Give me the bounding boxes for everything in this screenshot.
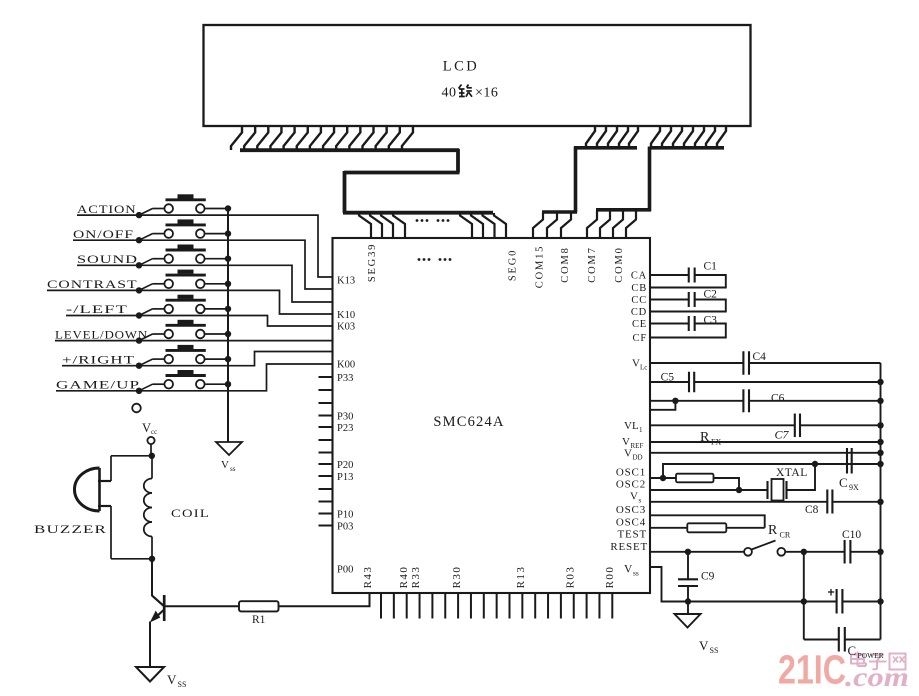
- svg-text:P20: P20: [337, 460, 353, 471]
- LCD segment pin bundle (left group) into bus: [231, 126, 413, 150]
- svg-text:R40: R40: [398, 566, 410, 589]
- Vcc terminal: [142, 421, 157, 456]
- svg-text:COM8: COM8: [560, 246, 571, 282]
- switch RESET: [744, 541, 785, 556]
- unconnected left pin stubs: [319, 377, 333, 526]
- pushbutton CONTRAST: [136, 270, 231, 294]
- svg-text:C8: C8: [805, 504, 819, 516]
- wire buzzer left side: [110, 456, 112, 559]
- svg-text:R43: R43: [362, 566, 374, 589]
- node RESET junction left: [685, 549, 691, 555]
- pushbutton LEVEL/DOWN: [136, 320, 231, 344]
- svg-text:RESET: RESET: [610, 541, 648, 553]
- COM bus A vertical: [574, 147, 578, 213]
- svg-text:R00: R00: [604, 566, 616, 589]
- ground Vss under transistor: [136, 667, 186, 689]
- spare contact circle: [132, 404, 141, 413]
- capacitor C1 between CA CB rows: [651, 261, 726, 288]
- capacitor CPOWER: [804, 627, 884, 660]
- wire RESET row: [651, 551, 744, 553]
- node OSC1 junction: [660, 475, 666, 481]
- wire OSC4 row: [651, 527, 687, 529]
- svg-text:COM15: COM15: [535, 245, 546, 288]
- LCD COM pin bundle (middle group) into bus: [586, 126, 638, 147]
- COM15/COM8 pin group into chip: [533, 213, 571, 239]
- svg-text:SEG39: SEG39: [367, 243, 378, 282]
- wire coil to transistor collector: [151, 559, 153, 596]
- capacitor C7: [775, 414, 801, 442]
- svg-text:P00: P00: [337, 565, 353, 576]
- wire Vss pin to bottom row: [650, 567, 804, 602]
- svg-text:COM7: COM7: [587, 246, 598, 282]
- COM7/COM0 pin group into chip: [587, 211, 636, 239]
- wire C6 to rail: [749, 400, 881, 402]
- svg-text:K13: K13: [337, 276, 355, 287]
- SEG0 pin group into chip: [460, 213, 506, 238]
- node coil top junction: [149, 453, 155, 459]
- svg-text:R1: R1: [252, 614, 266, 626]
- wire buzzer bottom: [111, 558, 152, 560]
- wire OSC1 row: [651, 477, 676, 479]
- svg-text:K00: K00: [337, 360, 355, 371]
- svg-text:C7: C7: [775, 428, 790, 442]
- svg-text:+/RIGHT: +/RIGHT: [62, 353, 135, 366]
- wire LEVEL/DOWN to key input: [55, 340, 333, 342]
- svg-text:LEVEL/DOWN: LEVEL/DOWN: [55, 328, 148, 341]
- svg-text:C6: C6: [771, 393, 785, 405]
- label RCR: [768, 523, 791, 540]
- svg-text:OSC1: OSC1: [616, 467, 646, 479]
- bottom R pin stubs: [381, 594, 612, 619]
- pin label VL1: [624, 420, 643, 434]
- pushbutton SOUND: [136, 245, 231, 269]
- transistor Q1: [150, 595, 164, 623]
- pin label Vss (bottom right): [624, 564, 639, 578]
- node bottom row right junction: [801, 598, 807, 604]
- svg-text:V: V: [624, 564, 633, 576]
- svg-text:R13: R13: [515, 566, 527, 589]
- wire ACTION to key input: [77, 215, 333, 277]
- wire GAME/UP to key input: [56, 364, 333, 391]
- svg-text:CB: CB: [631, 283, 647, 294]
- buzzer speaker symbol: [75, 468, 112, 511]
- svg-text:C10: C10: [842, 529, 861, 541]
- capacitor C9: [678, 552, 715, 602]
- wire OSC feedback top: [663, 464, 881, 478]
- wire C5 row to rail: [694, 381, 880, 383]
- svg-text:ACTION: ACTION: [77, 203, 137, 216]
- svg-text:CD: CD: [631, 307, 647, 318]
- svg-text:R33: R33: [410, 566, 422, 589]
- svg-text:BUZZER: BUZZER: [34, 523, 107, 536]
- resistor RCR: [687, 523, 726, 532]
- node RESET junction right: [801, 549, 807, 555]
- wire OSC3 row: [651, 515, 765, 528]
- pushbutton ON/OFF: [136, 219, 231, 243]
- wire VREF row: [651, 441, 881, 443]
- svg-text:40: 40: [442, 86, 457, 101]
- svg-text:XTAL: XTAL: [776, 467, 808, 479]
- svg-text:C9: C9: [701, 571, 715, 583]
- svg-text:C1: C1: [704, 261, 718, 273]
- COM bus A lower bar: [542, 210, 577, 214]
- COM bus B upper bar: [650, 146, 724, 150]
- wire C4 to right rail: [749, 362, 881, 364]
- pin label VDD: [624, 448, 643, 462]
- svg-text:C: C: [839, 475, 848, 490]
- svg-text:CF: CF: [633, 333, 647, 344]
- wire buzzer top: [111, 455, 152, 457]
- svg-text:V: V: [622, 436, 630, 448]
- capacitor C4: [743, 351, 766, 375]
- SEG bus lower bar above chip: [343, 211, 493, 215]
- wire VLC row: [651, 362, 743, 364]
- capacitor C9X: [839, 448, 859, 492]
- svg-text:×16: ×16: [475, 86, 498, 101]
- ellipsis dots between pin groups: [416, 219, 450, 222]
- SEG bus thick bar (upper): [240, 148, 459, 152]
- pushbutton ACTION: [136, 194, 231, 218]
- svg-text:R03: R03: [565, 566, 577, 589]
- svg-text:R30: R30: [451, 566, 463, 589]
- svg-text:ss: ss: [633, 569, 639, 578]
- wire Rosc to OSC2: [714, 478, 740, 490]
- svg-text:R: R: [768, 523, 778, 538]
- svg-text:21IC: 21IC: [778, 647, 846, 693]
- ground Vss right: [675, 602, 719, 656]
- wire VL1 row: [651, 424, 795, 426]
- wire +/RIGHT to key input: [62, 352, 333, 366]
- pushbutton GAME/UP: [136, 370, 231, 394]
- svg-text:K03: K03: [337, 322, 355, 333]
- svg-text:V: V: [221, 459, 229, 471]
- watermark dianziwang: [851, 652, 906, 670]
- wire SOUND to key input: [77, 265, 333, 302]
- svg-text:V: V: [167, 672, 177, 687]
- svg-text:P03: P03: [337, 522, 353, 533]
- SEG bus left vertical: [343, 171, 347, 213]
- svg-text:9X: 9X: [849, 483, 859, 492]
- svg-text:SMC624A: SMC624A: [433, 414, 504, 430]
- LCD COM pin bundle (right group) into bus: [651, 126, 726, 147]
- svg-text:OSC4: OSC4: [616, 517, 646, 529]
- svg-text:DD: DD: [633, 454, 643, 462]
- svg-text:C4: C4: [753, 351, 767, 363]
- svg-text:VL: VL: [624, 420, 639, 432]
- svg-text:V: V: [142, 421, 151, 435]
- svg-text:C2: C2: [704, 289, 718, 301]
- COM bus A upper bar: [574, 146, 637, 150]
- svg-text:ON/OFF: ON/OFF: [73, 228, 134, 241]
- capacitor C2 between CC CD rows: [651, 289, 726, 312]
- svg-text:C3: C3: [704, 314, 718, 326]
- svg-text:CE: CE: [632, 319, 647, 330]
- capacitor C10: [842, 529, 861, 564]
- LCD module: [204, 25, 751, 126]
- wire R1 to chip R43 pin: [279, 594, 370, 607]
- label RFX: [700, 430, 721, 447]
- svg-text:CONTRAST: CONTRAST: [47, 278, 138, 291]
- LCD label 40段×16: [442, 85, 499, 101]
- capacitor C5: [651, 372, 694, 393]
- ellipsis dots inside chip top: [418, 258, 452, 261]
- resistor Rosc: [676, 474, 714, 483]
- wire OSC2 row: [651, 489, 768, 491]
- wire C7 to rail: [800, 424, 881, 426]
- capacitor C8: [805, 490, 832, 517]
- wire ON/OFF to key input: [73, 240, 333, 289]
- wire hook to chip: [651, 401, 675, 410]
- svg-text:K10: K10: [337, 310, 355, 321]
- pin label VREF: [622, 436, 643, 450]
- node coil bottom junction: [149, 556, 155, 562]
- svg-text:COM0: COM0: [614, 246, 625, 282]
- wire C8 to rail: [832, 501, 880, 503]
- svg-text:LCD: LCD: [443, 59, 480, 75]
- COM bus B vertical: [648, 147, 652, 212]
- svg-text:P10: P10: [337, 510, 353, 521]
- wire -/LEFT to key input: [66, 316, 333, 327]
- COM bus B lower bar: [596, 208, 651, 212]
- svg-text:CA: CA: [631, 271, 647, 282]
- wire switch to C10: [785, 551, 844, 553]
- svg-text:GAME/UP: GAME/UP: [56, 379, 140, 392]
- capacitor C6: [743, 389, 784, 412]
- svg-text:OSC3: OSC3: [616, 504, 646, 516]
- crystal XTAL: [768, 467, 808, 501]
- svg-text:P23: P23: [337, 423, 353, 434]
- node OSC2 junction: [736, 487, 742, 493]
- svg-text:-/LEFT: -/LEFT: [66, 303, 128, 316]
- svg-text:Lc: Lc: [640, 364, 647, 372]
- wire reset node down: [803, 552, 805, 640]
- svg-text:P13: P13: [337, 472, 353, 483]
- resistor R1: [239, 601, 279, 626]
- key common rail: [227, 209, 229, 443]
- svg-text:V: V: [699, 638, 709, 653]
- svg-text:P33: P33: [337, 373, 353, 384]
- wire CONTRAST to key input: [47, 290, 333, 314]
- svg-text:CR: CR: [780, 531, 791, 540]
- node bottom row junction: [685, 598, 691, 604]
- SEG bus middle bar: [344, 171, 460, 175]
- svg-text:SOUND: SOUND: [77, 253, 138, 266]
- wire RCR to corner: [726, 527, 764, 529]
- svg-text:POWER: POWER: [858, 651, 884, 660]
- wire XTAL to top: [787, 464, 816, 490]
- wire C6 row: [651, 400, 743, 402]
- svg-text:C: C: [848, 643, 857, 658]
- svg-text:COIL: COIL: [171, 507, 210, 520]
- svg-text:CC: CC: [631, 295, 647, 306]
- right power rail: [880, 363, 882, 640]
- svg-text:V: V: [624, 448, 632, 460]
- capacitor CF battery: [804, 589, 881, 614]
- svg-text:REF: REF: [631, 442, 644, 450]
- svg-text:OSC2: OSC2: [616, 479, 646, 491]
- svg-text:TEST: TEST: [618, 529, 647, 541]
- node XTAL top junction: [812, 461, 818, 467]
- svg-text:V: V: [632, 358, 640, 370]
- pushbutton +/RIGHT: [136, 345, 231, 369]
- svg-text:1: 1: [639, 426, 643, 434]
- svg-text:SS: SS: [178, 680, 187, 689]
- wire C10 to rail: [850, 551, 880, 553]
- svg-text:C5: C5: [661, 372, 675, 384]
- wire emitter down: [149, 622, 151, 668]
- pushbutton -/LEFT: [136, 295, 231, 319]
- svg-text:SS: SS: [710, 646, 719, 655]
- node C6 row junction: [672, 398, 678, 404]
- svg-text:FX: FX: [711, 438, 721, 447]
- svg-text:R: R: [700, 430, 710, 445]
- capacitor C3 between CE CF rows: [651, 314, 726, 337]
- svg-text:cc: cc: [151, 428, 157, 436]
- svg-text:P30: P30: [337, 412, 353, 423]
- svg-text:ss: ss: [230, 465, 236, 473]
- wire base to R1: [164, 605, 239, 607]
- svg-text:SEG0: SEG0: [508, 249, 519, 281]
- wire Vs row: [651, 501, 827, 503]
- op IC U1 SMC624A body: [333, 238, 651, 593]
- inductor COIL: [144, 456, 152, 559]
- wire VDD row: [651, 452, 881, 454]
- SEG bus right vertical: [456, 149, 460, 173]
- pin label VLC: [632, 358, 647, 372]
- ground Vss under key rail: [216, 442, 242, 473]
- SEG39 pin group into chip: [359, 213, 405, 238]
- pin label Vs: [630, 491, 642, 505]
- svg-text:V: V: [630, 491, 638, 503]
